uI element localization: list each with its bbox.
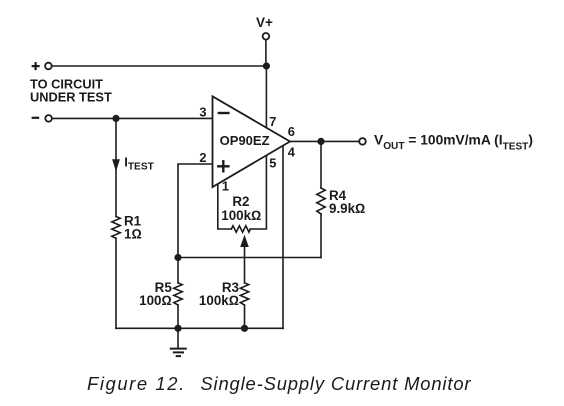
junction output / R4 bbox=[317, 138, 324, 145]
svg-text:UNDER TEST: UNDER TEST bbox=[30, 90, 112, 105]
wire R2 right lead to pin5 bbox=[250, 155, 266, 229]
svg-text:3: 3 bbox=[199, 104, 206, 119]
svg-text:1: 1 bbox=[222, 179, 229, 194]
wire R3 bottom to rail bbox=[244, 305, 246, 328]
resistor R5 bbox=[174, 283, 182, 305]
junction V+ / top rail bbox=[263, 62, 270, 69]
svg-text:100kΩ: 100kΩ bbox=[221, 208, 261, 223]
junction ground rail / R5 / ground bbox=[174, 325, 181, 332]
label R4 value bbox=[329, 188, 365, 216]
wire minus input rail bbox=[53, 117, 213, 119]
wire pin1 lead to R2 left bbox=[218, 184, 232, 229]
wire top rail from + terminal to V+ junction bbox=[53, 65, 267, 67]
resistor R4 bbox=[317, 188, 325, 214]
svg-text:Figure 12.Single-Supply Curren: Figure 12.Single-Supply Current Monitor bbox=[87, 373, 471, 394]
resistor R1 bbox=[112, 217, 120, 239]
label TO CIRCUIT UNDER TEST bbox=[30, 77, 112, 105]
op-amp U1 OP90EZ bbox=[213, 96, 291, 187]
junction minus rail / ITEST branch bbox=[112, 115, 119, 122]
op-amp inverting input minus symbol bbox=[218, 112, 230, 114]
wire ITEST branch down to R1 bbox=[115, 118, 117, 216]
wire V+ stub bbox=[265, 40, 267, 66]
potentiometer R2 wiper arrow bbox=[240, 235, 249, 247]
wire output from op-amp apex to VOUT terminal bbox=[290, 140, 359, 142]
wire node A to R5 top bbox=[177, 258, 179, 283]
svg-text:100kΩ: 100kΩ bbox=[199, 293, 239, 308]
svg-text:R2: R2 bbox=[232, 194, 249, 209]
svg-text:9.9kΩ: 9.9kΩ bbox=[329, 201, 365, 216]
label R5 value bbox=[139, 280, 172, 308]
svg-text:4: 4 bbox=[288, 145, 296, 160]
svg-text:OP90EZ: OP90EZ bbox=[220, 133, 270, 148]
terminal VOUT bbox=[359, 138, 366, 145]
svg-text:1Ω: 1Ω bbox=[124, 227, 142, 242]
potentiometer R2 body bbox=[231, 226, 250, 232]
label R1 value bbox=[124, 213, 142, 241]
op-amp non-inverting input plus symbol bbox=[217, 165, 230, 167]
wire R5 bottom to rail bbox=[177, 305, 179, 328]
wire mid rail node A to R4 bottom bbox=[178, 257, 321, 259]
resistor R3 bbox=[240, 283, 248, 305]
wire pin2 lead to node A bbox=[178, 164, 213, 258]
terminal + (input from circuit under test) bbox=[32, 62, 52, 70]
svg-text:7: 7 bbox=[269, 114, 276, 129]
ITEST current arrow bbox=[112, 159, 120, 171]
svg-text:100Ω: 100Ω bbox=[139, 293, 172, 308]
svg-text:6: 6 bbox=[288, 124, 295, 139]
wire R2 wiper to R3 top bbox=[244, 246, 246, 283]
wire R4 bottom lead bbox=[320, 214, 322, 258]
wire bottom ground rail bbox=[116, 327, 283, 329]
wire pin7 drop from junction to op-amp top edge bbox=[265, 66, 267, 128]
terminal V+ bbox=[256, 15, 273, 39]
node A junction (pin2 / R5 / mid rail) bbox=[174, 254, 181, 261]
terminal - (input from circuit under test) bbox=[32, 115, 52, 122]
wire pin4 drop to ground rail bbox=[282, 146, 284, 328]
svg-text:2: 2 bbox=[199, 150, 206, 165]
junction ground rail / R3 bbox=[241, 325, 248, 332]
ground bbox=[170, 328, 187, 356]
label R2 value bbox=[221, 194, 261, 223]
svg-text:5: 5 bbox=[269, 156, 276, 171]
svg-text:V+: V+ bbox=[256, 15, 273, 30]
label R3 value bbox=[199, 280, 239, 308]
wire R4 top lead to output node bbox=[320, 141, 322, 188]
wire R1 bottom to ground rail bbox=[115, 238, 117, 328]
